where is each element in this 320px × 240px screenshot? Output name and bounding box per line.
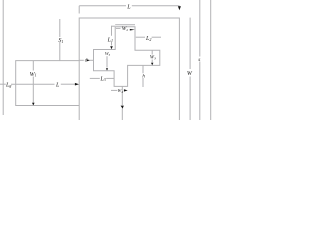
svg-text:L2: L2: [145, 36, 151, 42]
svg-text:S1: S1: [58, 38, 63, 44]
svg-text:W1: W1: [30, 72, 37, 78]
svg-text:L1: L1: [107, 37, 113, 43]
svg-text:L: L: [126, 5, 131, 11]
svg-text:W3: W3: [150, 56, 156, 61]
svg-text:L3: L3: [99, 76, 105, 82]
svg-text:L: L: [55, 82, 60, 88]
svg-text:W5: W5: [105, 51, 111, 57]
svg-text:Lg: Lg: [5, 82, 11, 88]
svg-text:W2: W2: [122, 26, 129, 32]
svg-text:W4: W4: [118, 88, 124, 94]
svg-text:s: s: [198, 57, 200, 63]
